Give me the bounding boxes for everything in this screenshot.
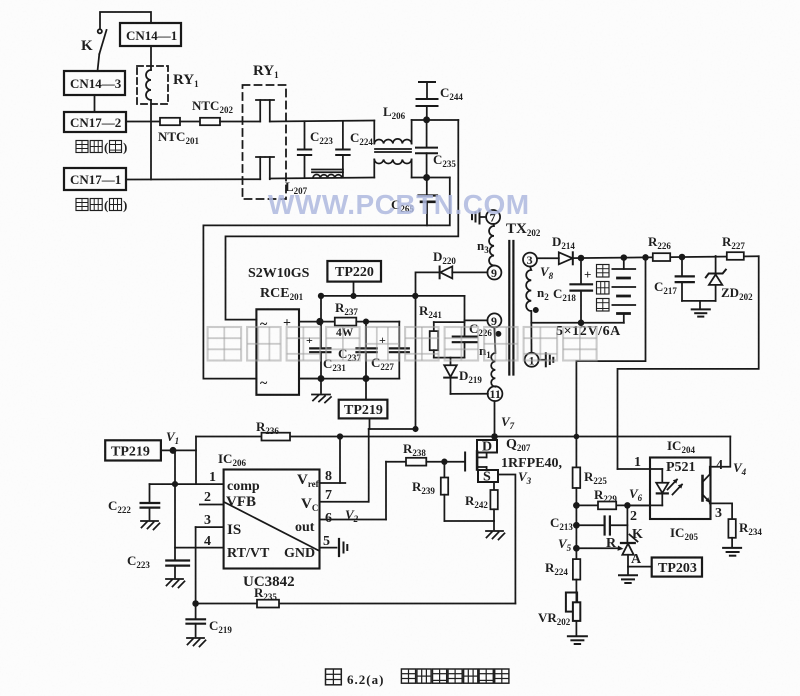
wire live CN17-2 to NTC201 xyxy=(126,121,160,123)
wire B comp to Vref to V4 xyxy=(196,436,730,438)
resistor R227 xyxy=(727,252,744,260)
caption 图6.2(a) 充电器控制电路 xyxy=(326,669,342,685)
resistor NTC201 xyxy=(160,118,180,125)
pin 11 terminal xyxy=(488,386,503,401)
resistor R238 xyxy=(406,458,426,466)
pin 9 terminal upper xyxy=(487,266,501,280)
regulator K precision shunt xyxy=(626,505,628,543)
ground VR202 xyxy=(568,635,587,637)
wire RY1 coil to neutral xyxy=(150,100,152,180)
relay contact top xyxy=(259,100,261,122)
wire bridge - output xyxy=(299,378,321,380)
wire CN14-1 to RY1 coil xyxy=(150,46,152,70)
light arrows xyxy=(668,480,678,490)
wire to pin4 opto xyxy=(711,437,731,467)
resistor R242 xyxy=(490,490,497,509)
wire D220 feed vertical xyxy=(416,272,440,429)
resistor R241 xyxy=(430,331,438,350)
watermark chinese company xyxy=(208,327,242,361)
wire pin1 opto xyxy=(618,468,663,470)
zener diode ZD202 xyxy=(715,256,717,274)
wire V1 vertical to C223 xyxy=(174,450,176,559)
wire pin1 comp lead xyxy=(150,483,224,485)
ground at pin1 xyxy=(539,359,546,361)
ground at pin7 xyxy=(480,216,487,218)
capacitor C227 xyxy=(398,322,400,348)
ground C219 xyxy=(187,638,206,647)
connector CN17-2 xyxy=(64,112,126,132)
wire source node V3 xyxy=(498,475,515,604)
LED inside opto xyxy=(661,469,663,483)
winding n3 xyxy=(489,224,494,266)
relay contact bottom xyxy=(259,157,261,179)
wire pin11 to drain rail V7 xyxy=(494,401,496,436)
resistor R226 xyxy=(653,253,670,261)
ground R234 xyxy=(723,547,741,549)
wire pin3 IS lead xyxy=(196,526,224,528)
potentiometer VR202 xyxy=(566,593,577,612)
wire CN14-3 to CN17-2 xyxy=(94,95,96,112)
switch K xyxy=(98,29,102,33)
polarity dot n1 xyxy=(496,332,500,336)
winding n1 xyxy=(491,327,495,386)
wire neutral CN17-1 to contact xyxy=(126,178,260,180)
transistor Q207 MOSFET xyxy=(477,440,497,453)
test point TP219 mid xyxy=(365,379,367,400)
resistor R224 xyxy=(573,559,580,580)
wire L206 to junction top xyxy=(412,119,459,121)
diode D214 xyxy=(537,257,559,259)
resistor R225 xyxy=(573,467,581,488)
wire pin3 riser to C219 xyxy=(195,527,197,618)
capacitor C235 xyxy=(426,120,428,147)
ground C223 xyxy=(166,579,185,588)
wire NTC201 to NTC202 xyxy=(180,121,200,123)
junction dots secondary xyxy=(579,256,584,261)
wire neutral to filter xyxy=(270,178,375,179)
wire bridge + output xyxy=(299,321,335,323)
wire loop neutral to bridge xyxy=(203,178,449,379)
wire R239 R242 bottom xyxy=(444,520,494,522)
relay coil RY1 xyxy=(137,66,168,104)
capacitor C224 xyxy=(342,121,344,149)
wire rail to pin9 xyxy=(464,296,466,322)
diode D219 xyxy=(450,358,452,365)
capacitor C244 xyxy=(419,81,435,83)
polarity dot n2 xyxy=(534,308,538,312)
capacitor C213 xyxy=(576,524,603,526)
wire TP219 drop xyxy=(369,418,371,429)
ground R242 xyxy=(493,521,495,530)
capacitor C223 xyxy=(304,121,306,148)
wire pin2 VFB stub xyxy=(200,504,224,506)
label 市电(零) xyxy=(76,199,88,211)
resistor R235 xyxy=(257,600,279,608)
resistor R234 xyxy=(728,519,735,538)
wire R235 feedback xyxy=(196,603,516,605)
label 市电(火) xyxy=(76,141,88,153)
relay contact box RY1 xyxy=(243,85,287,199)
capacitor C231 xyxy=(310,347,330,349)
wire pin2 opto xyxy=(627,504,662,506)
resistor R236 xyxy=(262,433,291,441)
resistor R237 xyxy=(335,318,357,326)
bridge rectifier RCE201 xyxy=(256,309,299,395)
wire bottom rail xyxy=(299,378,399,380)
pin 3 terminal xyxy=(523,253,537,267)
wire battery feed down to R225 xyxy=(576,257,645,467)
wire Vref riser pin8 xyxy=(339,437,341,484)
wire pin6 out to V2 xyxy=(320,519,387,521)
ground C217 ZD202 xyxy=(699,301,701,309)
ground C222 xyxy=(141,521,160,530)
ground regulator xyxy=(627,567,629,575)
capacitor C265 xyxy=(426,178,428,195)
wire R227 to opto feed xyxy=(618,256,759,469)
capacitor C223 xyxy=(166,559,189,561)
wire C231 riser xyxy=(320,296,322,348)
pin 7 terminal xyxy=(486,210,500,224)
wire VC riser pin7 xyxy=(368,429,370,502)
wire K top loop xyxy=(100,12,151,28)
capacitor C219 xyxy=(187,618,206,620)
pin 1 terminal xyxy=(525,353,539,367)
capacitor C237 xyxy=(365,322,367,348)
wire pin5 GND lead xyxy=(320,547,337,549)
optocoupler IC204 P521 xyxy=(650,458,711,520)
wire segment TP220 rail to VC xyxy=(369,428,416,430)
phototransistor inside opto xyxy=(701,476,704,501)
inductor L207 xyxy=(312,169,343,171)
capacitor C218 xyxy=(580,258,582,284)
connector CN17-1 xyxy=(64,168,126,190)
wire S to R242 xyxy=(493,482,495,490)
wire A node to TP203 xyxy=(628,566,652,568)
ground pin5 xyxy=(338,539,340,556)
wire live to filter xyxy=(270,121,375,122)
winding n2 xyxy=(526,267,531,311)
test point TP203 xyxy=(652,558,702,577)
wire top rail xyxy=(321,295,465,297)
junction dots bridge area xyxy=(317,319,323,325)
wire V5 reference xyxy=(576,547,618,549)
wire n2 rail xyxy=(531,322,624,324)
wire loop live to bridge xyxy=(226,120,459,320)
transformer TX202 core xyxy=(508,241,510,375)
wire pin4 RT lead xyxy=(175,547,224,549)
diode D220 xyxy=(439,267,441,279)
wire R238 gate xyxy=(386,461,406,463)
capacitor C217 xyxy=(681,257,683,276)
wire V1 node xyxy=(161,449,196,451)
test point TP220 xyxy=(327,261,381,282)
inductor L206 common-mode choke xyxy=(373,121,375,144)
resistor R229 xyxy=(598,502,616,510)
pin 9 terminal lower xyxy=(487,313,501,327)
wire pin3 opto to R234 xyxy=(711,503,733,519)
junction dots filter xyxy=(424,117,429,122)
IC UC3842 IC206 xyxy=(224,470,320,569)
ground bridge xyxy=(320,379,322,393)
label 蓄电池 xyxy=(597,265,610,278)
connector CN14-3 xyxy=(64,71,125,95)
connector CN14-1 xyxy=(120,23,181,46)
test point TP219 left xyxy=(105,440,161,460)
wire R229 to pin2 opto xyxy=(576,504,650,506)
wire D214 to R227 xyxy=(573,256,759,258)
junction dot V7 xyxy=(492,434,497,439)
snubber rail R241 C226 xyxy=(434,321,465,323)
capacitor C226 xyxy=(464,322,466,336)
capacitor C222 xyxy=(149,484,151,502)
resistor NTC202 xyxy=(200,118,220,125)
resistor R239 xyxy=(443,462,445,478)
wire NTC202 to contact xyxy=(220,121,260,123)
battery 蓄电池 xyxy=(623,258,625,269)
